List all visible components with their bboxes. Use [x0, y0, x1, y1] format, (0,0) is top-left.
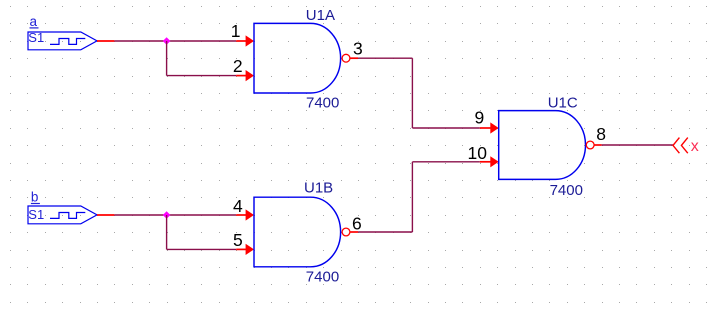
wire: U1B out right — [358, 231, 412, 233]
svg-text:7400: 7400 — [306, 95, 339, 112]
input source S1 (a) — [28, 32, 97, 50]
wire b: to pin 5 — [167, 248, 237, 250]
wire b: source to pin 4 — [114, 214, 236, 216]
svg-text:8: 8 — [596, 124, 606, 144]
U1A output bubble — [342, 54, 350, 62]
label a — [30, 14, 39, 29]
wire: down to pin 9 level — [411, 58, 413, 128]
pin 8 stub (red) — [594, 144, 602, 146]
svg-text:9: 9 — [474, 108, 484, 128]
pin 9 arrow — [480, 122, 499, 133]
svg-text:10: 10 — [468, 143, 488, 163]
svg-text:U1C: U1C — [548, 94, 578, 111]
pin stub a (red) — [97, 40, 114, 42]
output connector chevrons — [673, 138, 688, 154]
wire: up to pin 10 level — [411, 162, 413, 232]
label b — [31, 189, 40, 204]
wire: to pin 10 — [412, 161, 479, 163]
wire a: junction down — [166, 41, 168, 76]
svg-text:a: a — [30, 14, 38, 29]
wire: U1A out right — [358, 57, 412, 59]
svg-text:6: 6 — [352, 214, 362, 234]
pin stub b (red) — [97, 214, 114, 216]
NAND gate U1B — [254, 197, 341, 267]
svg-text:2: 2 — [233, 56, 243, 76]
wire a: to pin 2 — [167, 75, 237, 77]
NAND gate U1A — [254, 23, 341, 93]
svg-text:U1A: U1A — [306, 7, 335, 24]
svg-text:S1: S1 — [28, 207, 44, 222]
pin 4 arrow — [236, 209, 254, 220]
U1B output bubble — [342, 228, 350, 236]
svg-text:7400: 7400 — [306, 268, 339, 285]
wire: U1C out to connector x — [602, 144, 673, 146]
svg-text:b: b — [31, 189, 39, 204]
wire: to pin 9 — [412, 127, 479, 129]
input source S1 (b) — [28, 206, 97, 224]
pin 6 stub (red) — [350, 231, 358, 233]
U1C output bubble — [586, 141, 594, 149]
svg-text:4: 4 — [233, 196, 243, 216]
svg-text:5: 5 — [233, 230, 243, 250]
svg-text:S1: S1 — [28, 30, 44, 45]
svg-text:1: 1 — [231, 21, 241, 41]
pin 2 arrow — [236, 70, 254, 81]
pin 10 arrow — [480, 156, 499, 167]
wire a: source to pin 1 — [114, 40, 236, 42]
junction on net b — [163, 211, 171, 218]
wire b: junction down — [166, 215, 168, 249]
svg-text:7400: 7400 — [550, 182, 583, 199]
pin 1 arrow — [236, 35, 254, 46]
NAND gate U1C — [499, 111, 586, 180]
pin 5 arrow — [236, 244, 254, 255]
pin 3 stub (red) — [350, 57, 358, 59]
svg-text:x: x — [691, 138, 699, 155]
svg-text:U1B: U1B — [304, 180, 333, 197]
svg-text:3: 3 — [353, 38, 363, 58]
junction on net a — [163, 37, 171, 44]
